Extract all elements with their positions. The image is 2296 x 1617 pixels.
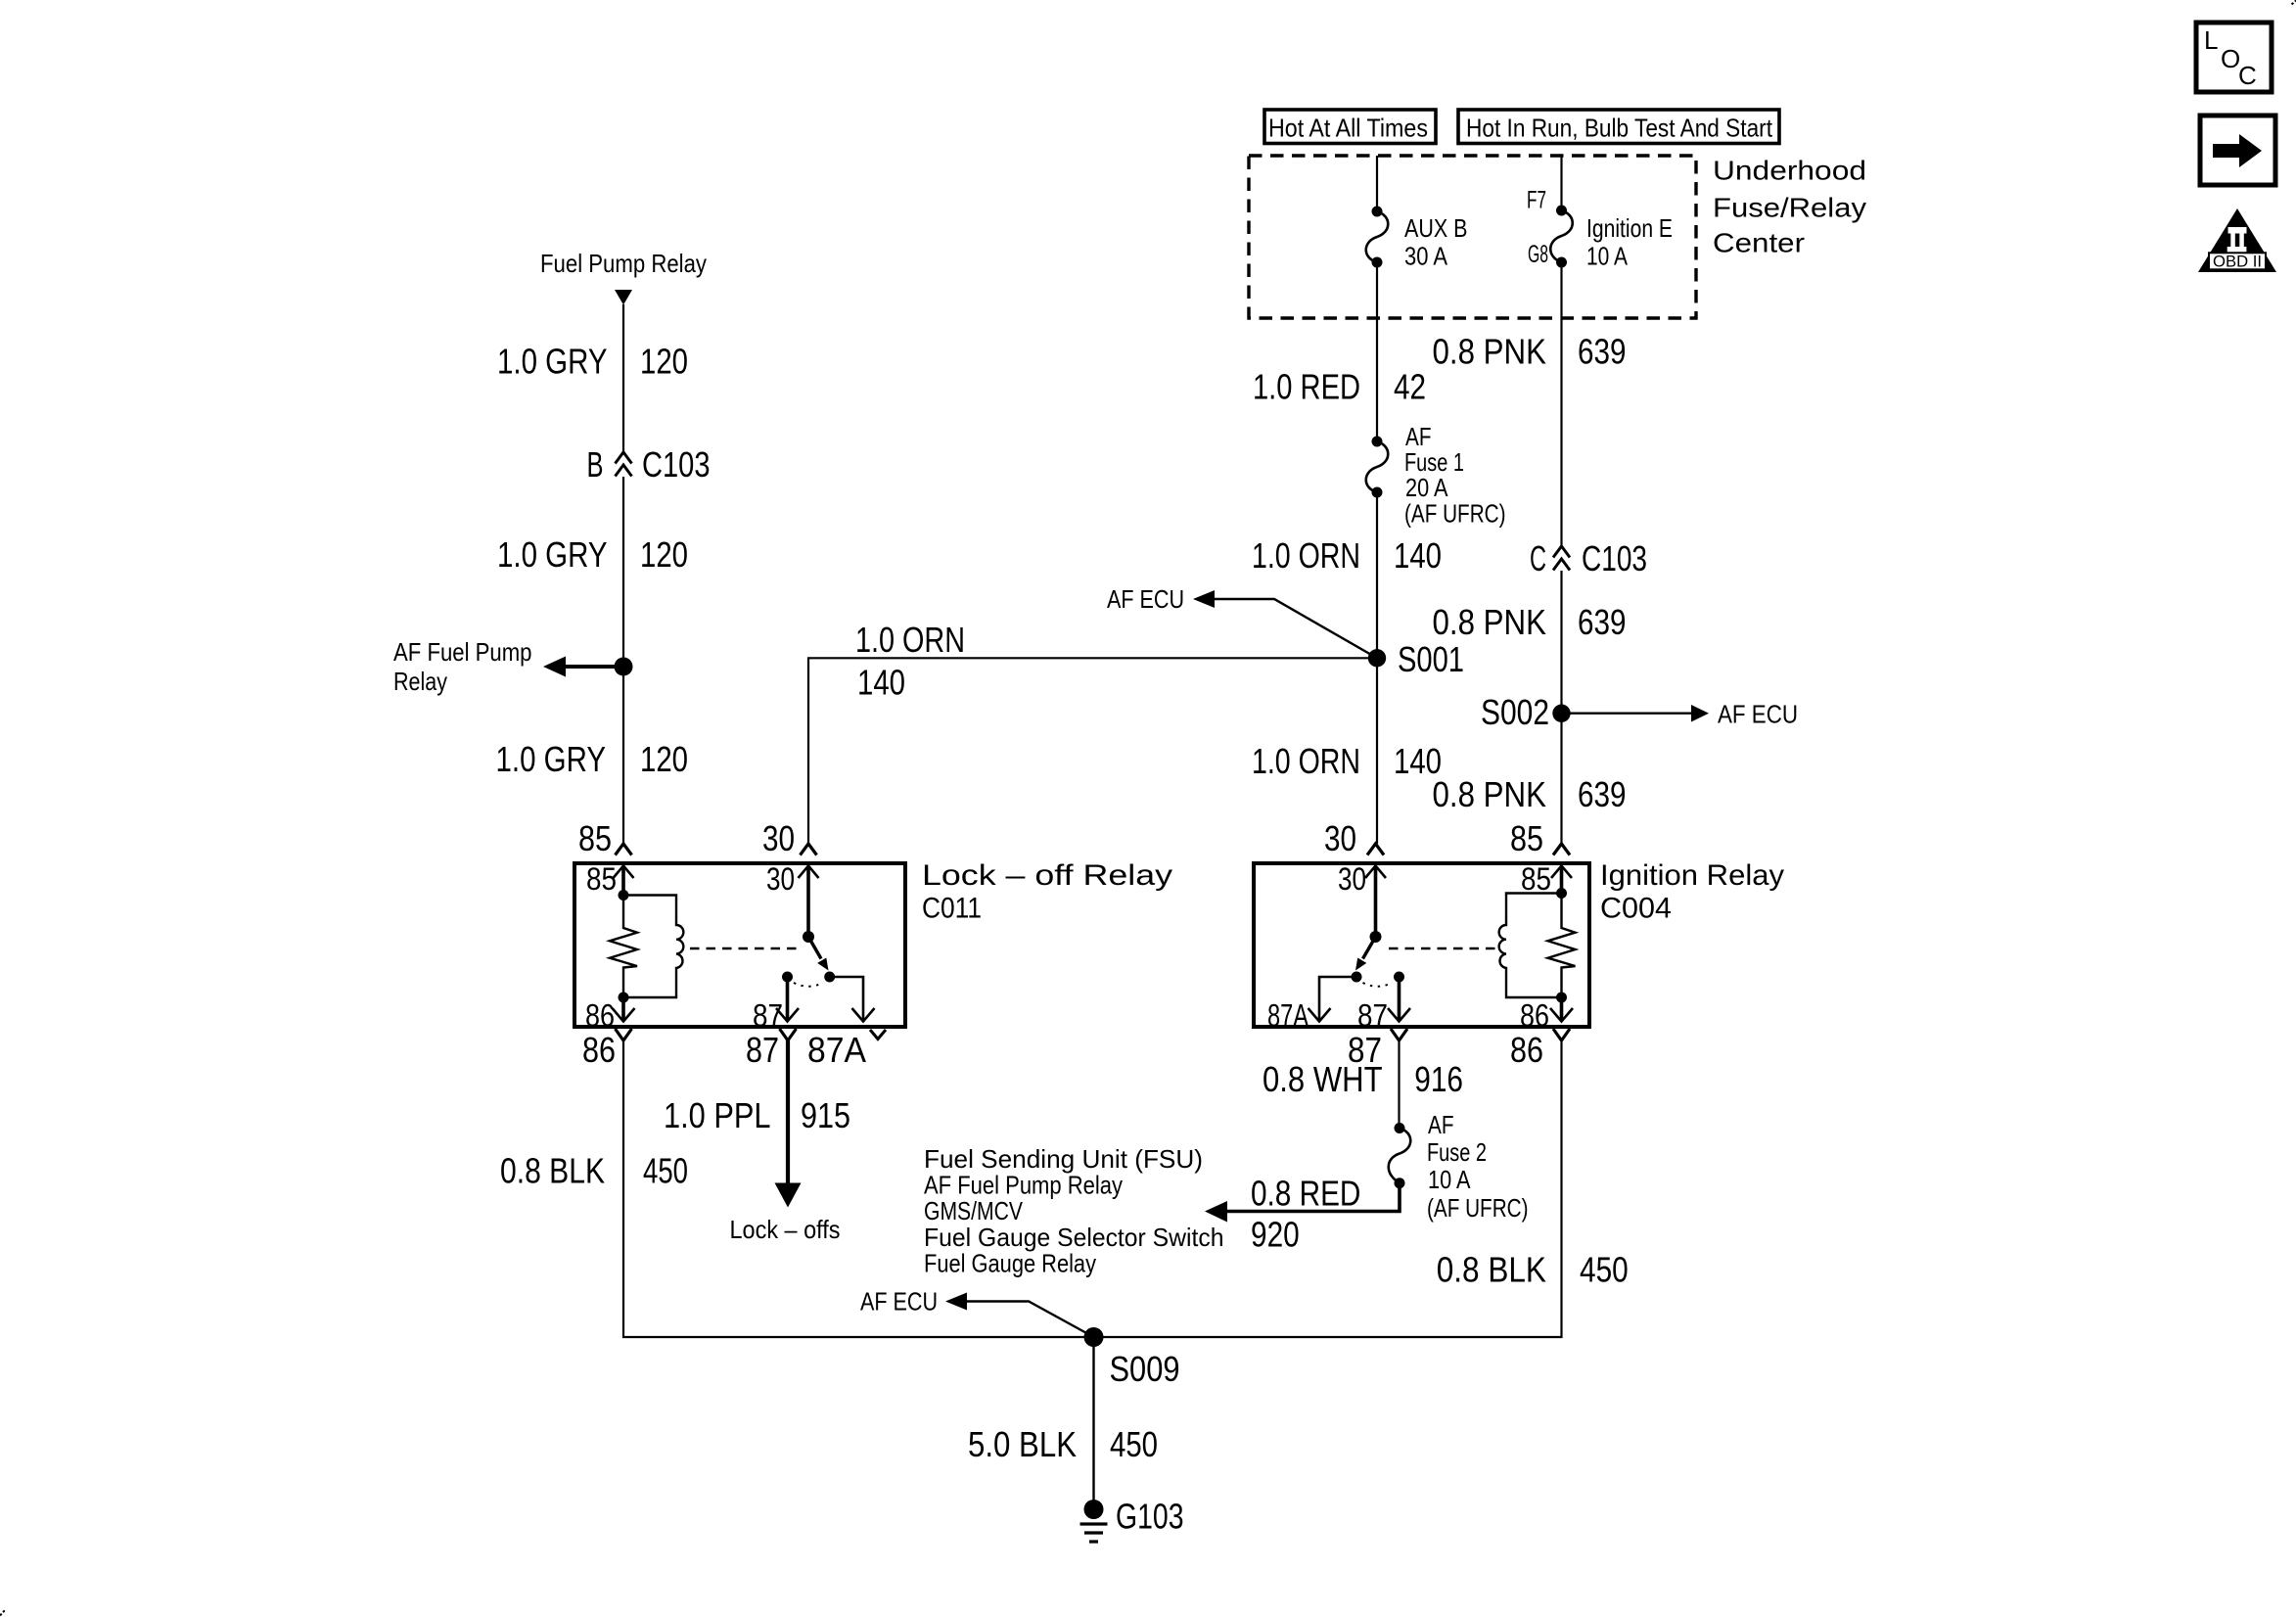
- svg-text:916: 916: [1414, 1059, 1463, 1099]
- svg-text:639: 639: [1578, 774, 1627, 814]
- svg-text:AUX B: AUX B: [1404, 213, 1468, 243]
- svg-text:Fuel Gauge Selector Switch: Fuel Gauge Selector Switch: [924, 1223, 1224, 1252]
- svg-text:86: 86: [1520, 998, 1549, 1034]
- svg-text:L: L: [2204, 25, 2218, 55]
- pin 87A of C004: [1267, 977, 1356, 1034]
- svg-text:Hot In Run, Bulb Test And Star: Hot In Run, Bulb Test And Start: [1466, 114, 1773, 143]
- svg-text:1.0 ORN: 1.0 ORN: [1252, 741, 1360, 781]
- svg-text:120: 120: [640, 534, 688, 575]
- svg-text:0.8 PNK: 0.8 PNK: [1433, 774, 1547, 814]
- svg-text:10 A: 10 A: [1586, 242, 1629, 271]
- wire 1.0 ORN 140 from S001 to Lock-off Relay pin 30: [808, 620, 1377, 844]
- svg-text:GMS/MCV: GMS/MCV: [924, 1196, 1024, 1225]
- fuse AF Fuse 1 20 A (AF UFRC): [1366, 422, 1506, 529]
- svg-text:(AF UFRC): (AF UFRC): [1404, 499, 1506, 529]
- arrow to AF Fuel Pump Relay: [393, 637, 623, 696]
- svg-text:C004: C004: [1600, 893, 1672, 925]
- pin 87 of C004: [1348, 982, 1410, 1070]
- wire 0.8 WHT 916 from C004 pin 87 to AF Fuse 2: [1263, 1040, 1463, 1129]
- svg-text:Center: Center: [1713, 228, 1805, 258]
- svg-text:85: 85: [586, 861, 617, 897]
- svg-text:Ignition Relay: Ignition Relay: [1600, 859, 1784, 892]
- svg-text:1.0 RED: 1.0 RED: [1253, 367, 1360, 407]
- svg-text:0.8 RED: 0.8 RED: [1251, 1174, 1360, 1214]
- svg-text:450: 450: [1110, 1424, 1158, 1464]
- splice S001: [1368, 639, 1464, 679]
- page corner tick bottom-left: [0, 1610, 5, 1616]
- svg-text:450: 450: [643, 1151, 688, 1191]
- switch of C004: [1352, 931, 1405, 987]
- svg-text:Fuel Gauge Relay: Fuel Gauge Relay: [924, 1248, 1096, 1277]
- svg-text:140: 140: [1394, 535, 1442, 576]
- svg-text:AF ECU: AF ECU: [1718, 700, 1798, 729]
- arrow to AF ECU from S001: [1107, 584, 1377, 658]
- arrow to AF ECU from S002: [1562, 700, 1799, 729]
- svg-text:S009: S009: [1110, 1349, 1180, 1389]
- svg-text:140: 140: [857, 663, 905, 703]
- svg-text:639: 639: [1578, 332, 1627, 372]
- svg-text:AF: AF: [1428, 1110, 1454, 1139]
- label Underhood Fuse/Relay Center: [1713, 156, 1866, 258]
- pin 87 of C011: [746, 982, 799, 1070]
- page corner tick top-right: [2292, 1, 2296, 5]
- svg-text:30: 30: [1324, 818, 1356, 858]
- svg-text:915: 915: [801, 1095, 850, 1135]
- svg-text:Relay: Relay: [393, 667, 447, 696]
- svg-text:1.0 ORN: 1.0 ORN: [855, 620, 965, 660]
- pin 30 of C011: [762, 818, 819, 935]
- component: Underhood Fuse/Relay Center dashed box: [1249, 156, 1696, 318]
- svg-text:C103: C103: [1582, 538, 1647, 578]
- wire 1.0 GRY 120 from Fuel Pump Relay to connector C103: [497, 304, 688, 452]
- wire 1.0 GRY 120 from C103 to junction: [497, 477, 688, 667]
- wire 1.0 GRY 120 from junction to Lock-off Relay pin 85: [496, 667, 689, 844]
- svg-text:87A: 87A: [1267, 998, 1309, 1034]
- svg-text:87A: 87A: [807, 1030, 866, 1070]
- svg-text:86: 86: [585, 998, 615, 1034]
- node: Hot At All Times box: [1264, 110, 1436, 144]
- relay K: Lock-off Relay C011 box: [574, 859, 1172, 1027]
- wire 1.0 ORN 140 from S001 to Ignition Relay pin 30: [1252, 658, 1442, 844]
- svg-text:Hot At All Times: Hot At All Times: [1268, 114, 1428, 143]
- svg-text:30 A: 30 A: [1404, 242, 1448, 271]
- svg-text:42: 42: [1394, 367, 1426, 407]
- svg-text:1.0 PPL: 1.0 PPL: [664, 1095, 771, 1135]
- svg-text:Fuel Pump Relay: Fuel Pump Relay: [540, 249, 707, 278]
- svg-text:1.0 GRY: 1.0 GRY: [496, 739, 607, 779]
- pin 86 of C011: [582, 997, 635, 1070]
- svg-text:F7: F7: [1527, 187, 1546, 214]
- fuse AF Fuse 2 10 A (AF UFRC): [1389, 1110, 1529, 1223]
- svg-text:Fuse/Relay: Fuse/Relay: [1713, 193, 1866, 223]
- pin 87A of C011: [807, 977, 886, 1070]
- svg-text:0.8 BLK: 0.8 BLK: [500, 1151, 605, 1191]
- fuse AUX B 30 A: [1366, 207, 1468, 271]
- svg-text:85: 85: [578, 818, 612, 858]
- relay coil of C011: [623, 896, 683, 998]
- svg-text:0.8 PNK: 0.8 PNK: [1433, 602, 1547, 642]
- dashed actuation link of C011: [690, 947, 801, 949]
- svg-text:S002: S002: [1481, 692, 1549, 732]
- wire from Hot At All Times into fuse AUX B: [1376, 156, 1378, 211]
- node list: fuel components fed by 920: [924, 1144, 1224, 1277]
- connector B pin of C103 (double chevron): [587, 444, 711, 485]
- wire 5.0 BLK 450 from S009 to G103: [968, 1337, 1158, 1509]
- svg-text:AF Fuel Pump Relay: AF Fuel Pump Relay: [924, 1171, 1123, 1200]
- svg-text:AF Fuel Pump: AF Fuel Pump: [393, 637, 532, 667]
- wire 1.0 ORN 140 from AF Fuse 1 to S001: [1252, 492, 1442, 658]
- wire ground bus from C011-86 to C004-86 through S009: [622, 1336, 1563, 1338]
- pin 86 of C004: [1510, 997, 1573, 1070]
- relay K: Ignition Relay C004 box: [1254, 859, 1784, 1027]
- svg-text:S001: S001: [1398, 639, 1464, 679]
- resistor of C011 coil suppression: [610, 890, 637, 1003]
- svg-text:87: 87: [753, 998, 783, 1034]
- wire 1.0 RED 42 from AUX B fuse down to AF Fuse 1: [1253, 262, 1426, 441]
- svg-text:87: 87: [1357, 998, 1388, 1034]
- svg-text:639: 639: [1578, 602, 1627, 642]
- symbol forward-arrow box: [2200, 115, 2275, 185]
- svg-text:87: 87: [746, 1030, 779, 1070]
- svg-text:C011: C011: [922, 893, 982, 925]
- wire 0.8 RED 920 arrow from AF Fuse 2 to fuel components: [1205, 1174, 1400, 1255]
- splice S002: [1481, 692, 1571, 732]
- wire from Hot In Run box into fuse Ignition E: [1560, 156, 1562, 210]
- svg-text:OBD II: OBD II: [2213, 254, 2262, 271]
- svg-text:B: B: [587, 444, 604, 485]
- wire 0.8 PNK 639 from fuse to connector C103: [1433, 262, 1627, 546]
- svg-text:0.8 WHT: 0.8 WHT: [1263, 1059, 1383, 1099]
- svg-text:450: 450: [1580, 1250, 1629, 1290]
- svg-text:0.8 BLK: 0.8 BLK: [1437, 1250, 1546, 1290]
- svg-text:(AF UFRC): (AF UFRC): [1427, 1193, 1529, 1223]
- svg-text:85: 85: [1521, 861, 1551, 897]
- dashed actuation link of C004: [1389, 947, 1495, 949]
- resistor of C004 coil suppression: [1548, 888, 1576, 1003]
- svg-text:AF ECU: AF ECU: [860, 1287, 938, 1317]
- svg-text:85: 85: [1510, 818, 1543, 858]
- svg-text:Fuse 2: Fuse 2: [1427, 1137, 1487, 1167]
- svg-text:G103: G103: [1116, 1497, 1184, 1537]
- svg-text:86: 86: [582, 1030, 616, 1070]
- svg-text:920: 920: [1251, 1215, 1300, 1255]
- svg-text:120: 120: [640, 739, 688, 779]
- svg-text:0.8 PNK: 0.8 PNK: [1433, 332, 1547, 372]
- svg-text:30: 30: [766, 861, 795, 897]
- pin 30 of C004: [1324, 818, 1386, 935]
- svg-text:Lock – off Relay: Lock – off Relay: [922, 859, 1172, 892]
- svg-text:C: C: [2238, 61, 2257, 90]
- svg-text:Fuel Sending Unit (FSU): Fuel Sending Unit (FSU): [924, 1144, 1203, 1174]
- wire 0.8 BLK 450 from C004 pin 86 to ground bus: [1437, 1040, 1629, 1338]
- svg-text:G8: G8: [1528, 241, 1548, 268]
- svg-text:Ignition E: Ignition E: [1586, 213, 1673, 243]
- svg-text:5.0 BLK: 5.0 BLK: [968, 1424, 1077, 1464]
- svg-text:Lock – offs: Lock – offs: [730, 1215, 841, 1244]
- svg-text:86: 86: [1510, 1030, 1543, 1070]
- connector C pin of C103 (double chevron): [1530, 538, 1647, 578]
- node: Fuel Pump Relay feed: [540, 249, 707, 305]
- pin 85 of C011: [578, 818, 634, 897]
- wire 0.8 PNK 639 from C103 to S002: [1433, 571, 1627, 714]
- fuse Ignition E 10 A with terminals F7 G8: [1527, 187, 1673, 271]
- svg-text:1.0 ORN: 1.0 ORN: [1252, 535, 1360, 576]
- symbol OBD II triangle: [2198, 208, 2276, 272]
- svg-text:30: 30: [1338, 861, 1366, 897]
- svg-text:10 A: 10 A: [1428, 1165, 1471, 1194]
- junction dot to AF Fuel Pump Relay: [615, 658, 633, 676]
- switch of C011: [782, 931, 835, 987]
- ground G103: [1080, 1497, 1184, 1543]
- wire 0.8 PNK 639 from S002 to Ignition Relay pin 85: [1433, 714, 1627, 844]
- svg-text:1.0 GRY: 1.0 GRY: [497, 534, 608, 575]
- relay coil of C004: [1499, 894, 1562, 998]
- svg-text:120: 120: [640, 342, 688, 382]
- node: Hot In Run Bulb Test And Start box: [1458, 110, 1779, 144]
- arrow to AF ECU from S009: [860, 1287, 1094, 1338]
- svg-text:AF ECU: AF ECU: [1107, 584, 1184, 614]
- svg-text:30: 30: [762, 818, 795, 858]
- svg-text:1.0 GRY: 1.0 GRY: [497, 342, 608, 382]
- wire 1.0 PPL 915 arrow from C011 pin 87 to Lock-offs: [664, 1040, 850, 1244]
- pin 85 of C004: [1510, 818, 1572, 897]
- svg-text:C: C: [1530, 538, 1546, 578]
- symbol LOC box: [2196, 23, 2272, 92]
- wire 0.8 BLK 450 from C011 pin 86 to ground bus: [500, 1040, 688, 1338]
- splice S009: [1084, 1327, 1180, 1389]
- svg-text:20 A: 20 A: [1405, 473, 1448, 502]
- svg-text:Underhood: Underhood: [1713, 156, 1866, 186]
- svg-text:C103: C103: [642, 444, 711, 485]
